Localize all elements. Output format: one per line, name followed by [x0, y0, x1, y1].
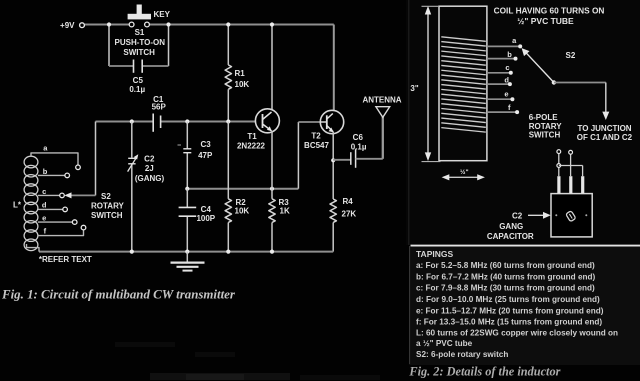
- svg-text:a: For 5.2–5.8 MHz (60 turns f: a: For 5.2–5.8 MHz (60 turns from ground…: [416, 261, 595, 270]
- svg-text:2J: 2J: [145, 164, 154, 173]
- svg-text:ROTARY: ROTARY: [91, 202, 125, 211]
- svg-text:*REFER TEXT: *REFER TEXT: [39, 255, 92, 264]
- svg-text:S1: S1: [135, 28, 145, 37]
- svg-text:e: e: [42, 213, 46, 222]
- svg-text:T1: T1: [247, 132, 257, 141]
- svg-text:C2: C2: [144, 155, 155, 164]
- svg-text:SWITCH: SWITCH: [123, 48, 155, 57]
- svg-text:0.1µ: 0.1µ: [351, 142, 367, 151]
- svg-text:½" PVC TUBE: ½" PVC TUBE: [517, 16, 574, 26]
- svg-text:10K: 10K: [235, 80, 250, 89]
- svg-text:CAPACITOR: CAPACITOR: [487, 232, 534, 241]
- svg-text:e: For 11.5–12.7 MHz (20 turns: e: For 11.5–12.7 MHz (20 turns from grou…: [416, 306, 604, 315]
- svg-text:GANG: GANG: [499, 222, 523, 231]
- svg-text:a ½" PVC tube: a ½" PVC tube: [416, 339, 473, 348]
- svg-text:T2: T2: [311, 132, 321, 141]
- svg-text:3": 3": [410, 84, 418, 93]
- svg-text:COIL HAVING 60 TURNS ON: COIL HAVING 60 TURNS ON: [494, 6, 605, 16]
- svg-text:d: For 9.0–10.0 MHz (25 turns: d: For 9.0–10.0 MHz (25 turns from groun…: [416, 295, 600, 304]
- svg-text:PUSH-TO-ON: PUSH-TO-ON: [115, 38, 166, 47]
- svg-text:1K: 1K: [280, 207, 290, 216]
- svg-text:S2: S2: [101, 192, 111, 201]
- svg-text:ROTARY: ROTARY: [529, 122, 563, 131]
- svg-text:Fig. 2: Details of the inducto: Fig. 2: Details of the inductor: [408, 364, 560, 378]
- svg-text:S2: 6-pole rotary switch: S2: 6-pole rotary switch: [416, 350, 508, 359]
- svg-text:c: c: [505, 63, 509, 72]
- svg-text:c: c: [42, 187, 46, 196]
- svg-text:27K: 27K: [342, 210, 357, 219]
- svg-text:f: For 13.3–15.0 MHz (15 turns: f: For 13.3–15.0 MHz (15 turns from grou…: [416, 318, 602, 327]
- svg-text:56P: 56P: [152, 103, 167, 112]
- svg-text:BC547: BC547: [304, 141, 329, 150]
- svg-text:6-POLE: 6-POLE: [529, 113, 559, 122]
- svg-text:R3: R3: [279, 198, 290, 207]
- svg-text:b: b: [43, 167, 48, 176]
- svg-text:C6: C6: [353, 133, 364, 142]
- svg-text:OF C1 AND C2: OF C1 AND C2: [577, 133, 633, 142]
- svg-text:SWITCH: SWITCH: [529, 131, 561, 140]
- svg-text:b: For 6.7–7.2 MHz (40 turns f: b: For 6.7–7.2 MHz (40 turns from ground…: [416, 272, 596, 281]
- svg-text:d: d: [42, 201, 47, 210]
- svg-text:TO JUNCTION: TO JUNCTION: [578, 124, 632, 133]
- svg-text:b: b: [507, 50, 512, 59]
- svg-text:½": ½": [460, 168, 469, 176]
- svg-text:e: e: [504, 90, 508, 99]
- svg-text:2N2222: 2N2222: [237, 142, 266, 151]
- svg-text:SWITCH: SWITCH: [91, 211, 123, 220]
- svg-text:S2: S2: [566, 51, 576, 60]
- svg-text:47P: 47P: [198, 151, 213, 160]
- svg-text:KEY: KEY: [154, 10, 171, 19]
- svg-text:+9V: +9V: [60, 21, 75, 30]
- svg-text:R1: R1: [235, 69, 246, 78]
- svg-text:(GANG): (GANG): [135, 174, 165, 183]
- svg-text:d: d: [504, 76, 509, 85]
- svg-text:C5: C5: [133, 76, 144, 85]
- svg-text:100P: 100P: [196, 214, 215, 223]
- svg-text:ANTENNA: ANTENNA: [362, 96, 401, 105]
- svg-text:C3: C3: [200, 140, 211, 149]
- svg-text:R4: R4: [343, 197, 354, 206]
- svg-text:L*: L*: [13, 201, 22, 210]
- svg-text:TAPINGS: TAPINGS: [416, 249, 453, 259]
- svg-text:C2: C2: [512, 212, 523, 221]
- svg-text:Fig. 1: Circuit of multiband C: Fig. 1: Circuit of multiband CW transmit…: [1, 287, 236, 301]
- svg-text:10K: 10K: [235, 207, 250, 216]
- svg-text:c: For 7.9–8.8 MHz (30 turns f: c: For 7.9–8.8 MHz (30 turns from ground…: [416, 284, 595, 293]
- svg-text:R2: R2: [236, 198, 247, 207]
- svg-text:L: 60 turns of 22SWG copper wi: L: 60 turns of 22SWG copper wire closely…: [416, 329, 618, 338]
- svg-text:0.1µ: 0.1µ: [129, 85, 145, 94]
